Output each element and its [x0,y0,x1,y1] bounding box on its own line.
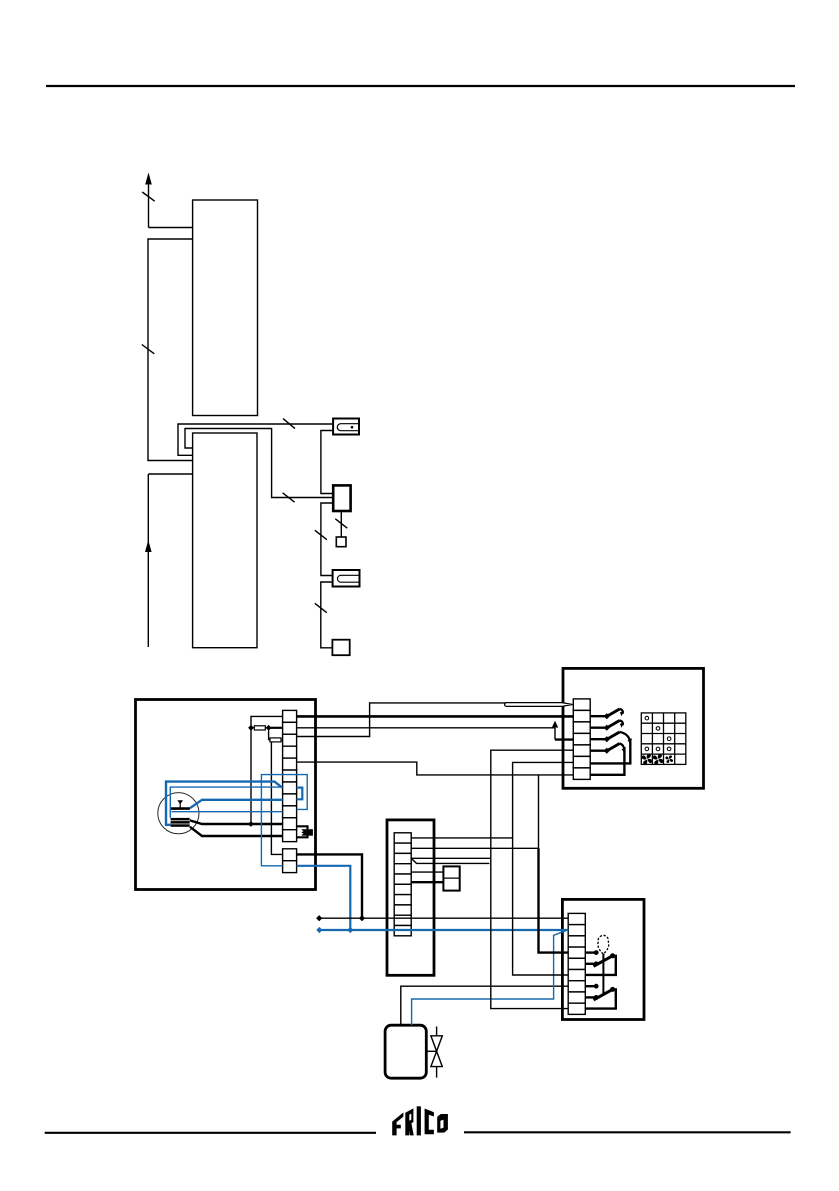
motor thermal contact bar [171,807,190,810]
resistor R1 [254,726,265,730]
terminal strip C [573,699,590,780]
connector plug X2 [333,570,360,587]
wire junction down to motor line [250,728,252,824]
valve symbol [426,1027,442,1078]
cable slash mark [335,519,347,528]
switch SW2 [590,720,624,730]
jumper blue A7-A8 right side [297,788,303,800]
wire D3 to vertical V1 [411,857,491,859]
wire blue bus to E2 [319,929,568,931]
wire upper output to E6 [585,956,616,975]
unit box rect1 [193,200,258,416]
valve actuator box [385,1025,426,1078]
wire return line with arrow [145,474,193,647]
connector plug X1 [333,419,359,435]
thermostat box [562,899,644,1019]
relay box K2 [443,866,459,890]
node junction [359,915,365,921]
wire D5 to relay K2 [411,881,443,883]
contactor K1 [333,485,350,511]
wire plug X1 to contactor K1 [321,431,333,494]
wire rect2 to contactor K1 [185,429,333,498]
switch SW3 with output to C6 [590,732,632,764]
node junction [266,725,272,731]
wire down to terminal B1 [271,742,282,855]
contact stub E8 [585,995,598,1000]
FRICO logo [392,1106,448,1135]
cable slash mark [142,192,155,201]
cable slash mark [315,603,327,612]
wire junction down to resistor R2 [268,728,270,740]
wire contactor K1 to sensor S1 [340,511,342,537]
footer rule right [464,1131,791,1133]
wire motor black lower to terminal A11 [190,827,283,836]
wire terminal A1 feed [251,716,283,727]
wire C5 via V1 to E9 [491,750,574,1008]
cable slash mark [283,419,295,429]
wire A2 to C4 [297,721,574,740]
node junction blue [347,927,353,933]
wire valve blue to E2 [412,930,569,1025]
contact stub E7 [585,984,598,989]
fan icon large 2 [653,754,664,765]
resistor R2 [270,738,281,742]
wire supply line with arrow [145,173,192,228]
wire junction to terminal A2 [269,727,283,729]
transformer box [387,820,434,975]
wire blue contact to terminal A8 [190,800,283,808]
wire A3 to C1 with cable lug [297,703,573,737]
terminal strip E [568,913,585,1014]
wire B2 to blue bus junction [297,866,351,930]
motor contact actuator symbol [177,800,183,808]
cable slash mark [283,493,295,502]
fan icon small [665,755,673,763]
wire blue outer bracket to terminal A7 [166,782,283,825]
plug black terminal A10-A11 [297,826,313,837]
cable slash mark [142,345,155,354]
wire D3 twin conductor [411,858,489,863]
wire resistor R2 to terminal A3 [269,739,283,741]
wire A5 to C7 [297,762,574,775]
wire motor black upper to terminal A10 [190,820,283,824]
wire plug X2 to sensor S2 [321,582,333,648]
wire V3 lower to E4 [539,848,569,952]
speed selector grid table [641,713,686,765]
wire through resistor R1 [251,727,269,729]
thermostat stem [602,954,604,995]
switch SW4 with output to C7 [590,743,626,774]
thermostat lever upper [594,953,616,966]
unit box rect2 [193,433,257,648]
terminal diamond black [316,915,322,921]
wire B1 to black bus junction [297,854,362,918]
motor circle M1 [158,793,199,834]
contact stub E4 [585,950,598,955]
terminal diamond blue [316,927,322,933]
sensor S2 [332,640,349,656]
wire D1 to vertical V2 [411,837,512,839]
contact stub E5 [585,961,598,966]
sensor S1 [336,537,346,547]
motor winding block [171,818,190,827]
wire lower output to E9 [585,989,616,1008]
wire C6 via V2 to E6 [513,762,574,975]
heater unit box [136,700,316,890]
wire blue inner bracket to terminal A7 [170,787,282,818]
fan icon large 1 [642,754,653,765]
node junction [248,821,254,827]
wire left bracket [148,239,193,461]
thermostat bulb symbol [598,935,609,954]
wire black bus to E1 [319,917,568,919]
wire D2 to vertical V3 [411,847,538,849]
control unit box [563,668,704,788]
footer rule left [45,1132,376,1134]
terminal strip B [283,849,297,873]
terminal strip D [394,833,411,936]
wire V3 upper from A5 line [538,775,540,848]
wire blue thin to terminal A9 [172,811,283,813]
wire A1 to C2 supply [297,715,574,718]
wire D4 to relay K2 [411,871,443,873]
wire valve black to E7 [401,986,568,1025]
node junction [248,725,254,731]
cable slash mark [315,530,327,539]
grid position marks [645,716,671,750]
switch SW1 [590,709,624,719]
header rule [46,85,795,87]
wire blue loop A9 to B2 [261,775,307,866]
wire rect2 to plug X1 [178,424,333,455]
wire contactor K1 to plug X2 [321,503,333,576]
thermostat lever lower [594,987,616,1000]
terminal strip A [283,710,297,841]
